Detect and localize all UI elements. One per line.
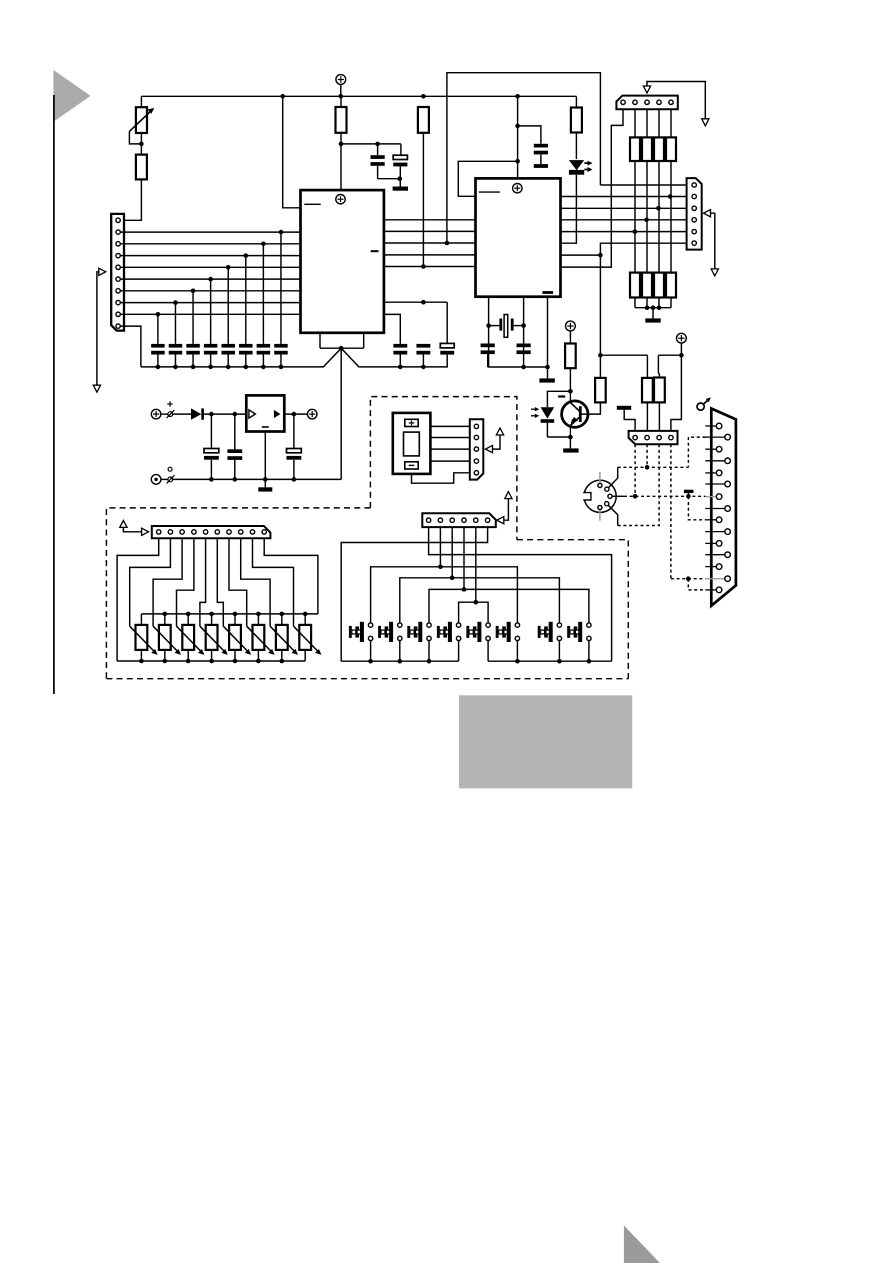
junction (450, 576, 455, 581)
junction (233, 659, 238, 664)
junction (208, 277, 213, 282)
wire (192, 291, 194, 344)
DIN pin c (608, 494, 612, 498)
LED D2 (569, 160, 584, 170)
connector J4 pin 7 (227, 530, 231, 534)
wire bus AN0 (120, 231, 300, 233)
DB15 pin R6 (705, 554, 725, 556)
wire dashed K9 (671, 578, 706, 580)
capacitor CB3 (186, 344, 200, 348)
photodiode D3 (547, 391, 570, 407)
ground (539, 378, 554, 382)
resistor R7 (657, 355, 659, 373)
wire (569, 368, 571, 391)
wire bus E6 (600, 243, 686, 355)
wire (518, 126, 541, 144)
ground (645, 318, 660, 322)
resistor R6 (646, 355, 648, 378)
wire (122, 179, 141, 220)
junction (186, 659, 191, 664)
wire (129, 131, 141, 144)
connector J2 pin 2 (633, 100, 637, 104)
junction (209, 477, 214, 482)
connector J1 (111, 214, 124, 331)
wire (280, 232, 282, 344)
junction (156, 365, 161, 370)
U2 label bar (542, 291, 553, 294)
wire (227, 267, 229, 344)
wire (635, 307, 671, 309)
junction (668, 194, 673, 199)
potentiometer RV1 (140, 614, 142, 625)
junction (679, 353, 684, 358)
wire (581, 402, 600, 414)
capacitor CB1 (151, 344, 165, 348)
connector J4 pin 6 (215, 530, 219, 534)
label minus (558, 395, 565, 397)
wire fan P4 (177, 538, 194, 626)
junction (208, 365, 213, 370)
wire (547, 367, 549, 378)
junction (438, 565, 443, 570)
capacitor C9 (210, 414, 212, 448)
U1 power mark (336, 195, 345, 204)
junction (209, 659, 214, 664)
wire dashed K2 (646, 444, 648, 467)
capacitor CB5 (221, 344, 235, 348)
wire fan S5 (475, 527, 477, 602)
junction (226, 365, 231, 370)
connector J4 pin 3 (180, 530, 184, 534)
wire bus E3 (561, 207, 687, 209)
battery module BT1 (393, 413, 431, 474)
connector J9 pin 2 (474, 435, 478, 439)
junction (209, 612, 214, 617)
wire bus E2 (561, 196, 687, 198)
wire +V rail2b (658, 354, 681, 356)
wire bus E1 (600, 184, 686, 186)
DIN pin a (598, 483, 602, 487)
junction (163, 612, 168, 617)
connector J6 pin 3 (657, 435, 661, 439)
junction (515, 124, 520, 129)
wire +5V rail (141, 95, 576, 97)
junction (521, 323, 526, 328)
connector J1 pin 7 (116, 289, 120, 293)
resistor R12 (136, 155, 147, 180)
junction (427, 659, 432, 664)
connector J1 pin 6 (116, 277, 120, 281)
switch SW6 (515, 623, 519, 627)
junction (256, 659, 261, 664)
junction (398, 365, 403, 370)
junction (191, 289, 196, 294)
wire (319, 333, 321, 348)
wire (340, 133, 342, 190)
capacitor CB2 (169, 344, 183, 348)
junction (339, 346, 344, 351)
wire ground bus PS (175, 478, 341, 480)
connector DB15 J8 (711, 409, 736, 606)
DIN pin b (605, 487, 609, 491)
connector J4 pin 2 (168, 530, 172, 534)
DB15 pin L6 (705, 542, 716, 544)
wire bus AN1 (120, 243, 300, 245)
wire dashed K1 (634, 444, 636, 496)
wire (140, 133, 142, 155)
junction (233, 612, 238, 617)
wire fan S4 (463, 527, 465, 589)
junction (398, 176, 403, 181)
junction (651, 305, 656, 310)
junction (515, 159, 520, 164)
ground (258, 487, 272, 491)
connector J3 pin 5 (692, 229, 696, 233)
wire (569, 331, 571, 344)
wire (608, 505, 617, 525)
wire bus E5 (561, 231, 687, 233)
diode D1 (191, 408, 201, 419)
switch SW3 (427, 623, 431, 627)
connector J4 pin 4 (192, 530, 196, 534)
wire pot top bus (141, 613, 318, 615)
plug symbol 0 (168, 477, 173, 482)
wire (430, 437, 469, 439)
junction (686, 494, 691, 499)
wire fan S2 (439, 527, 441, 567)
DIN pin d (605, 502, 609, 506)
dashed enclosure left (106, 508, 370, 679)
wire (430, 460, 469, 462)
wire ground bus (141, 348, 447, 367)
junction (173, 365, 178, 370)
junction (568, 389, 573, 394)
junction (191, 365, 196, 370)
wire (517, 96, 519, 178)
junction (633, 229, 638, 234)
junction (244, 253, 249, 258)
connector J9 pin 3 (474, 447, 478, 451)
wire (157, 314, 159, 344)
wire (161, 413, 168, 415)
wire (488, 366, 548, 368)
reference arrow F (497, 517, 504, 524)
wire (161, 478, 168, 480)
connector J4 pin 1 (157, 530, 161, 534)
capacitor C1 (377, 144, 379, 155)
junction (156, 312, 161, 317)
connector J9 (470, 419, 484, 479)
connector J3 pin 4 (692, 218, 696, 222)
junction (657, 305, 662, 310)
connector J5 pin 2 (438, 518, 442, 522)
resistor R1 (336, 107, 347, 133)
IC U1 (301, 190, 384, 333)
potentiometer RV3 (187, 614, 189, 625)
junction (186, 612, 191, 617)
connector J3 pin 1 (692, 183, 696, 187)
wire (430, 448, 469, 450)
wire (283, 96, 301, 208)
junction (339, 94, 344, 99)
potentiometer RV7 (281, 614, 283, 625)
connector J1 pin 8 (116, 300, 120, 304)
plug symbol + (168, 412, 173, 417)
wire dashed K10 (688, 579, 705, 590)
connector J2 pin 5 (669, 100, 673, 104)
potentiometer RV8 (304, 614, 306, 625)
junction (139, 142, 144, 147)
capacitor C4 (393, 344, 407, 348)
ground flag (617, 406, 631, 410)
resistor RM4 (666, 273, 676, 298)
wire switch bus right (488, 660, 611, 662)
crystal X1 (499, 319, 502, 331)
power terminal 0V (151, 475, 161, 485)
connector J6 pin 4 (669, 435, 673, 439)
connector J3 (687, 178, 702, 250)
connector J4 pin 5 (203, 530, 207, 534)
wire fan P3 (153, 538, 182, 626)
junction (568, 435, 573, 440)
connector J5 pin 4 (462, 518, 466, 522)
junction (233, 477, 238, 482)
potentiometer RV4 (211, 614, 213, 625)
U2 power mark (513, 184, 522, 193)
wire (262, 244, 264, 344)
wire bus D (384, 219, 476, 221)
junction (279, 230, 284, 235)
wire dashed K7 (624, 495, 706, 497)
connector J3 pin 6 (692, 241, 696, 245)
reference arrow D (486, 445, 493, 452)
junction (244, 365, 249, 370)
DIN key marks (599, 472, 601, 484)
power terminal + input (151, 409, 161, 419)
junction (515, 94, 520, 99)
DB15 pin R2 (705, 460, 725, 462)
wire bus AN3 (120, 266, 300, 268)
connector J6 pin 1 (633, 435, 637, 439)
wire (547, 297, 549, 367)
connector J1 pin 9 (116, 312, 120, 316)
junction (686, 576, 691, 581)
junction (233, 412, 238, 417)
connector J1 pin 5 (116, 265, 120, 269)
wire (671, 355, 682, 431)
junction (645, 305, 650, 310)
wire bus AN2 (120, 255, 300, 257)
wire (120, 326, 141, 367)
junction (656, 206, 661, 211)
capacitor C5 (416, 344, 430, 348)
power terminal + output (307, 409, 317, 419)
wire fan S1 (429, 527, 612, 661)
wire fan S6 (341, 527, 487, 661)
DB15 pin R5 (705, 531, 725, 533)
junction (280, 659, 285, 664)
ground flag (684, 490, 694, 493)
wire (680, 343, 682, 355)
capacitor C3 (534, 144, 548, 148)
capacitor C6 (440, 343, 454, 348)
wire fan P5 (200, 538, 206, 626)
junction (421, 94, 426, 99)
callout box (grey) (459, 695, 632, 788)
wire bus AN7 (120, 313, 300, 315)
potentiometer RV6 (257, 614, 259, 625)
potentiometer RV2 (164, 614, 166, 625)
wire (609, 467, 618, 487)
wire (245, 256, 247, 344)
wire (210, 279, 212, 344)
transistor Q1 (562, 401, 588, 427)
junction (339, 142, 344, 147)
wire (399, 179, 401, 187)
junction (139, 659, 144, 664)
wire (575, 96, 577, 107)
connector J5 pin 6 (485, 518, 489, 522)
connector J2 pin 3 (645, 100, 649, 104)
capacitor C2 (400, 144, 402, 155)
wire (488, 297, 490, 367)
potentiometer RP1 (136, 107, 147, 133)
switch SW8 (587, 623, 591, 627)
dashed enclosure bottom (106, 678, 628, 680)
wire (412, 473, 470, 483)
DIN pin e (598, 505, 602, 509)
junction (421, 264, 426, 269)
page margin rule left (53, 95, 55, 694)
wire fan P10 (264, 538, 318, 614)
dashed enclosure right (517, 540, 628, 679)
junction (474, 600, 479, 605)
wire (174, 303, 176, 344)
wire (446, 302, 448, 343)
junction (644, 218, 649, 223)
wire dashed K6 (618, 466, 689, 468)
LED arrows (584, 162, 587, 164)
capacitor C8 (517, 344, 531, 348)
connector J2 pin 1 (621, 100, 625, 104)
wire switch bus left (341, 660, 458, 662)
reference arrow C (704, 210, 711, 217)
wire (422, 133, 424, 267)
switch SW2 (398, 623, 402, 627)
wire (341, 143, 401, 145)
power terminal +5V (336, 75, 346, 85)
page margin triangle bottom-right (624, 1226, 660, 1264)
wire dashed K8 (688, 496, 705, 520)
junction (256, 612, 261, 617)
junction (598, 353, 603, 358)
DB15 pin L4 (705, 496, 716, 498)
wire bus D (384, 242, 476, 244)
resistor RN1 (634, 109, 636, 137)
wire (487, 354, 489, 367)
capacitor C10 (234, 414, 236, 449)
wire fan P2 (130, 538, 171, 626)
junction (462, 587, 467, 592)
wire (284, 413, 307, 415)
resistor R5 (599, 355, 601, 378)
connector J1 pin 3 (116, 242, 120, 246)
reference arrow B (647, 82, 705, 119)
wire pot bottom bus (117, 660, 305, 662)
DB15 pin L3 (705, 472, 716, 474)
wire (264, 432, 266, 488)
junction (209, 412, 214, 417)
wire fan S3 (451, 527, 453, 578)
wire (561, 175, 577, 244)
wire fan P8 (241, 538, 270, 626)
capacitor CB8 (274, 344, 288, 348)
ground (563, 448, 578, 452)
connector J3 pin 2 (692, 194, 696, 198)
wire bus E4 (561, 219, 687, 221)
capacitor C7 (481, 344, 495, 348)
connector J6 pin 2 (645, 435, 649, 439)
junction (163, 659, 168, 664)
U1 label line (371, 250, 379, 252)
junction (279, 365, 284, 370)
power terminal +V3 (566, 321, 576, 331)
connector J1 pin 2 (116, 230, 120, 234)
IC U2 (476, 178, 561, 296)
wire bus AN4 (120, 278, 300, 280)
connector J1 pin 4 (116, 253, 120, 257)
junction (486, 323, 491, 328)
junction (545, 365, 550, 370)
reference arrow A (99, 268, 106, 275)
resistor R2 (418, 107, 429, 133)
junction (375, 142, 380, 147)
connector J1 pin 10 (116, 324, 120, 328)
photodiode arrows (531, 408, 536, 410)
capacitor CB4 (204, 344, 218, 348)
DB15 pin R1 (705, 436, 725, 438)
wire bus D (384, 266, 476, 268)
wire +V rail2 (600, 354, 647, 356)
junction (645, 465, 650, 470)
resistor RN3 (658, 109, 660, 137)
junction (263, 477, 268, 482)
connector J5 pin 3 (450, 518, 454, 522)
wire (363, 333, 365, 348)
resistor RN2 (646, 109, 648, 137)
wire fan P7 (229, 538, 247, 626)
wire (204, 413, 246, 415)
connector J4 (152, 526, 271, 538)
junction (515, 659, 520, 664)
DB15 pin L7 (705, 566, 716, 568)
wire (140, 96, 142, 107)
wire (173, 413, 191, 415)
wire bus AN5 (120, 290, 300, 292)
junction (280, 94, 285, 99)
connector J9 pin 4 (474, 459, 478, 463)
wire (458, 161, 517, 196)
wire (378, 178, 400, 180)
reference arrow E (120, 520, 127, 527)
U1 label line (304, 203, 320, 205)
connector J9 pin 5 (474, 471, 478, 475)
junction (421, 300, 426, 305)
connector DIN J7 (584, 480, 616, 512)
DB15 pin R3 (705, 483, 725, 485)
junction (421, 365, 426, 370)
resistor RM3 (654, 273, 664, 298)
